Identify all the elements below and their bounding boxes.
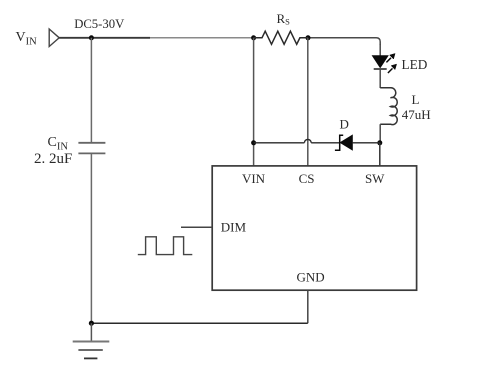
- wire hop over CS line: [304, 139, 311, 142]
- diode D schottky cathode bar: [335, 135, 343, 150]
- svg-text:SW: SW: [365, 171, 385, 186]
- svg-text:47uH: 47uH: [402, 107, 431, 122]
- svg-text:VIN: VIN: [242, 171, 266, 186]
- svg-text:DIM: DIM: [221, 220, 247, 235]
- wire VIN pin vertical: [253, 38, 255, 166]
- svg-text:CS: CS: [299, 171, 315, 186]
- wire SW corner down to LED: [379, 44, 381, 56]
- node junction dot at resistor right: [306, 35, 311, 40]
- ground bar 1: [73, 341, 110, 343]
- diode D triangle: [340, 135, 352, 150]
- wire diode row left segment: [254, 142, 305, 144]
- svg-text:L: L: [412, 92, 420, 107]
- svg-text:2. 2uF: 2. 2uF: [34, 151, 72, 167]
- ground bar 2: [78, 349, 102, 351]
- wire diode to SW node: [352, 142, 380, 144]
- wire left rail lower (CIN to ground rail): [90, 154, 92, 323]
- node junction dot at resistor left: [251, 35, 256, 40]
- wire bottom ground rail: [91, 322, 307, 324]
- LED arrow 2: [388, 64, 397, 73]
- LED arrow 1: [386, 54, 395, 63]
- wire DIM pin: [181, 226, 212, 228]
- capacitor CIN bottom plate: [78, 152, 105, 154]
- LED cathode bar: [374, 68, 387, 70]
- node junction dot at ground: [89, 321, 94, 326]
- svg-text:D: D: [340, 116, 349, 131]
- ground bar 3: [84, 357, 97, 359]
- wire CS pin vertical: [307, 38, 309, 166]
- capacitor CIN top plate: [78, 142, 105, 144]
- resistor RS: [254, 31, 308, 44]
- wire LED cathode to inductor: [379, 69, 381, 88]
- wire SW node down to box: [379, 143, 381, 166]
- LED diode triangle: [373, 56, 388, 68]
- svg-text:GND: GND: [297, 270, 325, 285]
- wire inductor to diode row: [379, 124, 381, 143]
- node junction dot at VIN rail / CIN: [89, 35, 94, 40]
- PWM square wave symbol: [138, 237, 193, 255]
- input port VIN triangle: [49, 29, 59, 47]
- wire top rail segment C (between resistor and SW corner): [308, 38, 380, 45]
- node junction dot diode-row left: [251, 140, 256, 145]
- svg-text:LED: LED: [402, 57, 428, 72]
- node junction dot diode-row right (SW): [377, 140, 382, 145]
- inductor L: [380, 88, 397, 125]
- IC box U1: [212, 166, 416, 290]
- wire GND pin down: [307, 290, 309, 323]
- svg-text:DC5-30V: DC5-30V: [74, 17, 125, 31]
- wire hop to diode cathode: [311, 142, 340, 144]
- wire top rail segment A (triangle to first bend): [59, 37, 150, 39]
- ground stem: [90, 323, 92, 341]
- wire top rail segment B: [150, 37, 254, 39]
- wire left rail upper (to CIN): [90, 38, 92, 142]
